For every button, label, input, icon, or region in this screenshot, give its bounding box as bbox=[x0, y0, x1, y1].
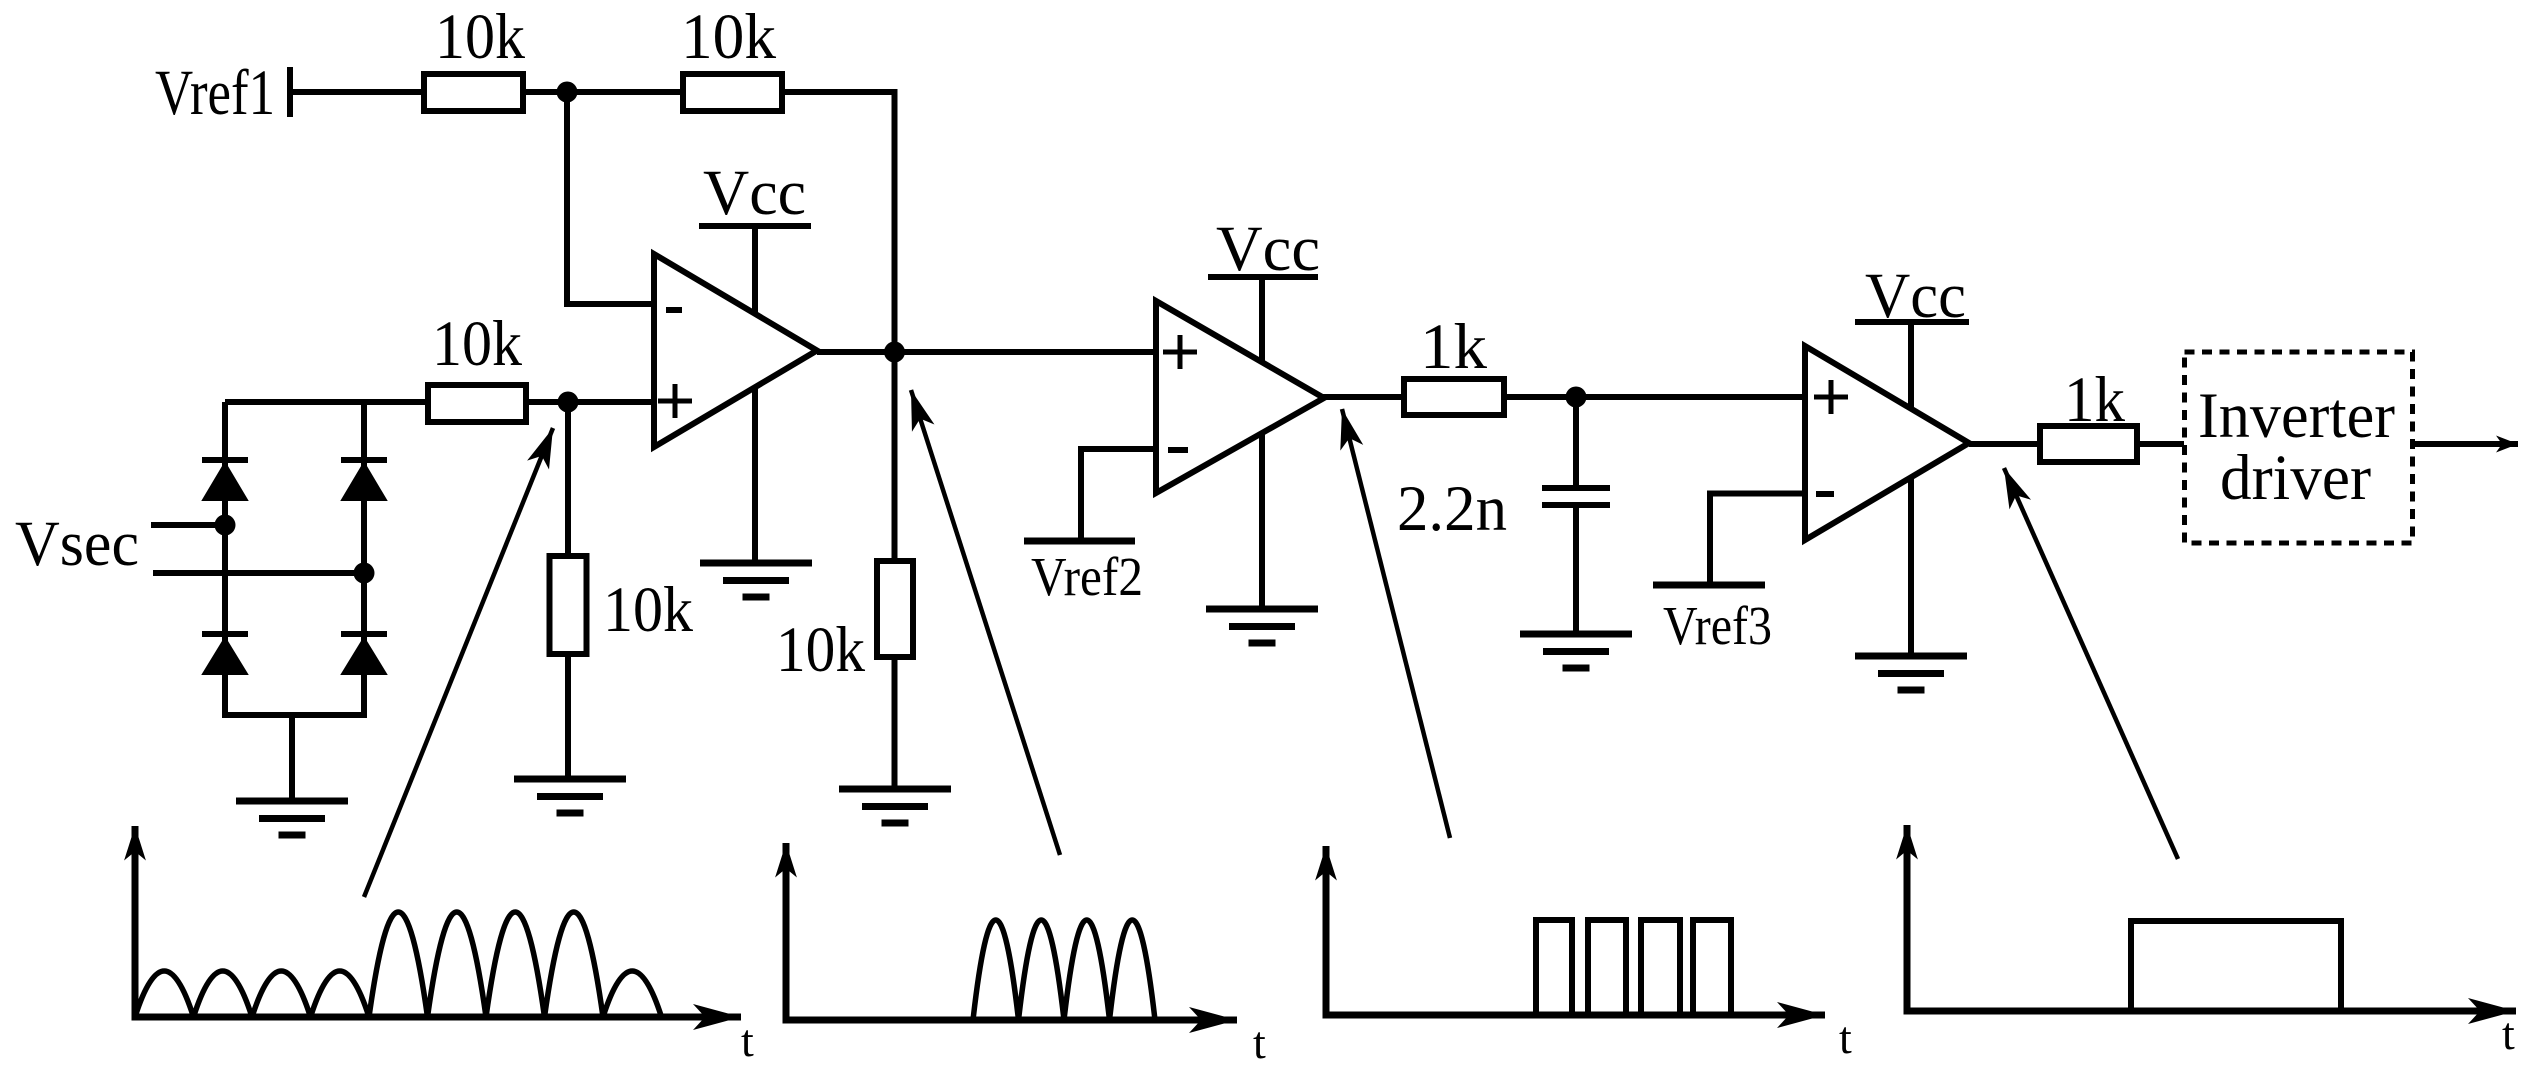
wire capacitor C1 to ground bbox=[1573, 505, 1579, 634]
diode D1 (left top) bbox=[202, 460, 248, 500]
annotation arrow from plot 1 to node B bbox=[364, 428, 553, 897]
diode D2 (left bottom) bbox=[202, 634, 248, 674]
ground (U3) bbox=[1855, 656, 1967, 690]
wire Vsec bottom tap to bridge right branch bbox=[153, 570, 364, 576]
resistor R6 1k bbox=[1404, 379, 1504, 415]
annotation arrow from plot 3 to U2 output bbox=[1342, 409, 1450, 838]
resistor R7 1k bbox=[2040, 426, 2137, 462]
wire bridge bottom rail bbox=[222, 712, 367, 718]
waveform plot 2 curve bbox=[973, 920, 1155, 1020]
inverter driver dashed box bbox=[2185, 352, 2413, 543]
wire U1 to ground stem bbox=[752, 387, 758, 563]
svg-text:t: t bbox=[2502, 1008, 2515, 1059]
svg-text:Vref3: Vref3 bbox=[1663, 595, 1772, 656]
node Vref1 terminal bbox=[287, 67, 293, 117]
wire U2 output to R6 bbox=[1322, 394, 1404, 400]
wire R3 to node B to U1 + input bbox=[526, 399, 654, 405]
wire inverter driver output arrow bbox=[2413, 441, 2518, 447]
waveform plot 4 pulse bbox=[2131, 921, 2341, 1011]
node Vsec bottom junction dot bbox=[354, 563, 375, 584]
wire output node down to R5 bbox=[892, 352, 898, 561]
waveform plot 3 pulses bbox=[1536, 920, 1731, 1015]
waveform plot 2 axes bbox=[783, 843, 1238, 1022]
Vcc bar U2 bbox=[1208, 274, 1318, 280]
svg-text:Vref1: Vref1 bbox=[155, 57, 275, 129]
capacitor C1 2.2n plates bbox=[1542, 488, 1610, 505]
svg-text:Vsec: Vsec bbox=[15, 508, 139, 580]
wire U3 inverting input to Vref3 bbox=[1710, 494, 1805, 586]
annotation arrow from plot 4 to U3 output bbox=[2004, 468, 2178, 859]
wire U3 output to R7 bbox=[1969, 441, 2040, 447]
diode D3 (right top) bbox=[341, 460, 387, 500]
resistor R4 10k (to ground at + input) bbox=[550, 556, 587, 654]
node A junction dot bbox=[557, 82, 578, 103]
svg-text:10k: 10k bbox=[432, 308, 522, 380]
ground (R5) bbox=[839, 789, 951, 823]
svg-text:1k: 1k bbox=[1420, 311, 1488, 383]
op-amp U3 bbox=[1805, 346, 1969, 540]
wire Vsec top tap to bridge left branch bbox=[151, 522, 225, 528]
diode D4 (right bottom) bbox=[341, 634, 387, 674]
annotation arrow from plot 2 to U1 output node bbox=[911, 390, 1060, 855]
svg-text:2.2n: 2.2n bbox=[1397, 473, 1507, 545]
wire R7 to inverter driver box bbox=[2137, 441, 2184, 447]
svg-text:Vcc: Vcc bbox=[703, 157, 806, 229]
svg-text:Vref2: Vref2 bbox=[1031, 546, 1143, 607]
svg-text:t: t bbox=[1253, 1017, 1266, 1068]
wire U3 to ground stem bbox=[1908, 478, 1914, 656]
wire R2 right to feedback corner down to output node bbox=[782, 92, 895, 352]
resistor R3 10k (Vsec input) bbox=[428, 385, 526, 422]
wire node A down to op-amp U1 inverting input bbox=[567, 92, 654, 304]
ground (U1) bbox=[700, 563, 812, 597]
op-amp U1 bbox=[654, 254, 817, 447]
resistor R5 10k (to ground at U1 output) bbox=[877, 561, 913, 657]
Vref3 bar bbox=[1653, 582, 1765, 589]
wire bridge top rail to R3 bbox=[225, 399, 428, 405]
wire Vcc U2 stem bbox=[1259, 277, 1265, 363]
Vref2 bar bbox=[1024, 538, 1135, 545]
wire Vcc U1 stem bbox=[752, 226, 758, 314]
wire U2 to ground stem bbox=[1259, 431, 1265, 609]
svg-text:10k: 10k bbox=[603, 574, 693, 646]
wire R5 to ground bbox=[892, 657, 898, 789]
wire bridge center tap to ground bbox=[289, 715, 295, 801]
svg-text:t: t bbox=[1839, 1012, 1852, 1063]
wire node B down to R4 bbox=[565, 402, 571, 556]
node U1 output junction dot bbox=[884, 342, 905, 363]
svg-text:10k: 10k bbox=[435, 1, 525, 73]
waveform plot 4 axes bbox=[1904, 825, 2517, 1013]
svg-text:10k: 10k bbox=[776, 614, 865, 686]
wire Vcc U3 stem bbox=[1908, 322, 1914, 408]
Vcc bar U1 bbox=[699, 223, 811, 229]
wire R6 to node C to U3 + input bbox=[1504, 394, 1805, 400]
svg-text:Vcc: Vcc bbox=[1865, 260, 1966, 332]
resistor R2 10k (feedback) bbox=[683, 74, 782, 111]
svg-text:1k: 1k bbox=[2064, 364, 2125, 436]
ground (U2) bbox=[1206, 609, 1318, 643]
waveform plot 1 axes bbox=[132, 826, 742, 1019]
Vcc bar U3 bbox=[1855, 319, 1969, 325]
node C junction dot bbox=[1566, 387, 1587, 408]
ground (R4) bbox=[514, 779, 626, 813]
wire bridge left branch bbox=[222, 402, 228, 715]
waveform plot 1 curve bbox=[135, 912, 662, 1017]
wire R4 to ground bbox=[565, 654, 571, 779]
node Vsec top junction dot bbox=[215, 515, 236, 536]
wire bridge right branch bbox=[361, 402, 367, 715]
wire node C down to capacitor C1 bbox=[1573, 397, 1579, 488]
ground (C1) bbox=[1520, 634, 1632, 668]
waveform plot 3 axes bbox=[1323, 846, 1826, 1017]
wire R1 to node A bbox=[523, 89, 683, 95]
resistor R1 10k (Vref1 input) bbox=[424, 74, 523, 111]
wire U2 inverting input to Vref2 bbox=[1081, 449, 1156, 541]
op-amp U2 bbox=[1156, 301, 1324, 493]
svg-text:10k: 10k bbox=[681, 1, 776, 73]
svg-text:Vcc: Vcc bbox=[1216, 213, 1320, 285]
node B junction dot bbox=[558, 392, 579, 413]
wire Vref1 to R1 bbox=[293, 89, 424, 95]
wire U1 output to U2 + input bbox=[817, 349, 1156, 355]
svg-text:t: t bbox=[741, 1015, 754, 1066]
svg-text:driver: driver bbox=[2220, 442, 2371, 514]
ground (bridge) bbox=[236, 801, 348, 835]
